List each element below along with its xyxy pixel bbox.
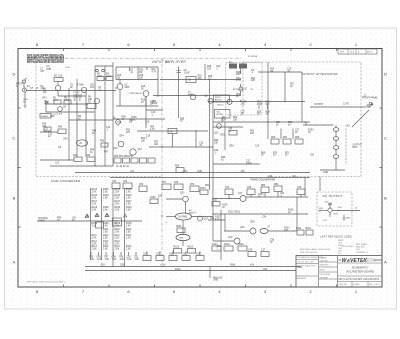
svg-text:PROJ ENGR: PROJ ENGR: [320, 274, 331, 276]
wire base: [319, 210, 328, 212]
wire long riser: [212, 102, 214, 242]
resistor R4: [106, 77, 113, 81]
input jack J1: [23, 88, 27, 92]
resistor pack: [123, 158, 130, 163]
svg-text:1K 1K 1K 1K: 1K 1K 1K 1K: [116, 166, 130, 168]
dc output dashed outline: [317, 192, 352, 226]
wire: [40, 131, 58, 133]
resistor R6: [64, 100, 71, 104]
wire diagonal: [352, 110, 369, 127]
wire band stubs: [229, 192, 301, 199]
svg-text:R59: R59: [175, 165, 180, 167]
LAST REF DESIG USED table: [320, 236, 369, 256]
wire: [46, 111, 95, 113]
svg-text:C41: C41: [310, 155, 315, 157]
svg-text:R2 1.0K: R2 1.0K: [54, 76, 63, 78]
svg-text:AND 1V RANGE SELECTED. SEE TAB: AND 1V RANGE SELECTED. SEE TABLE PER ASS…: [27, 61, 64, 64]
reference resistor R131: [96, 222, 104, 228]
connector arrow: [369, 104, 373, 108]
svg-text:R76: R76: [139, 184, 144, 186]
wire: [113, 118, 165, 120]
revision history box: [338, 49, 377, 54]
svg-text:OUTPUT ATTENUATOR: OUTPUT ATTENUATOR: [302, 72, 339, 76]
wire riser: [76, 79, 78, 119]
title block: [296, 256, 382, 288]
wire stub: [199, 251, 201, 256]
wire: [258, 71, 302, 73]
svg-text:SCALE: SCALE: [353, 283, 360, 286]
svg-text:C2 .01 1KV: C2 .01 1KV: [52, 114, 63, 116]
wire stub: [185, 251, 187, 256]
wire relay chain: [335, 125, 337, 170]
svg-text:R104: R104: [200, 188, 206, 190]
relay contact K3-1: [333, 128, 338, 132]
svg-text:C23: C23: [123, 181, 128, 183]
resistor R114: [297, 230, 304, 235]
resistor R78: [174, 184, 183, 190]
svg-text:-15V: -15V: [100, 264, 105, 266]
capacitor C26: [297, 189, 305, 195]
node: [304, 121, 305, 122]
capacitor C25: [247, 189, 255, 195]
wire: [50, 165, 113, 167]
svg-text:0101-00-0574: 0101-00-0574: [342, 246, 355, 248]
resistor R3: [97, 77, 104, 81]
svg-text:-15V: -15V: [240, 171, 245, 173]
ground symbol input: [24, 104, 27, 108]
wire: [185, 202, 187, 213]
resistor R43: [101, 143, 108, 147]
svg-text:R40 10: R40 10: [217, 104, 224, 106]
transistor Q15: [183, 196, 189, 202]
wire connector stub: [24, 78, 26, 88]
wire: [172, 134, 174, 148]
resistor R42: [87, 157, 95, 162]
capacitor C2: [79, 94, 81, 101]
wire: [213, 240, 234, 242]
wire: [45, 101, 47, 113]
wire -15V rail: [110, 177, 310, 179]
resistor R79: [190, 186, 199, 192]
svg-text:W∧VETEK: W∧VETEK: [342, 258, 368, 264]
wire amp top rail: [116, 66, 158, 68]
wire y80: [160, 79, 240, 81]
wire riser: [224, 214, 226, 231]
wire U2 out: [116, 89, 158, 106]
node: [115, 87, 116, 88]
node: [224, 230, 225, 231]
warning triangle 5: [96, 214, 99, 217]
resistor R126: [238, 246, 247, 251]
wire: [137, 67, 139, 80]
wire riser: [284, 72, 286, 102]
node: [68, 95, 69, 96]
wire: [192, 216, 213, 218]
node: [212, 213, 213, 214]
wire stub: [159, 251, 161, 256]
resistor R76: [139, 186, 147, 192]
wire stub: [90, 252, 92, 256]
svg-text:Q15: Q15: [180, 193, 185, 195]
svg-text:SHT 1 OF 1: SHT 1 OF 1: [369, 284, 381, 286]
wire riser: [204, 64, 206, 80]
wire riser: [267, 62, 269, 102]
wire riser: [220, 210, 222, 260]
relay contact K3-3: [333, 146, 338, 150]
wire ohms source: [37, 220, 142, 222]
amplifier U4: [168, 129, 177, 134]
warning triangle 4: [86, 214, 89, 217]
node: [85, 111, 86, 112]
wire riser right: [301, 72, 303, 122]
resistor R5: [54, 100, 61, 104]
svg-text:CR1: CR1: [42, 98, 47, 100]
transistor Q3: [94, 98, 99, 103]
node: [212, 198, 213, 199]
node: [76, 103, 77, 104]
svg-text:+15V: +15V: [65, 67, 70, 69]
svg-text:+5V: +5V: [250, 264, 255, 266]
wire -15V bottom rail: [85, 266, 300, 268]
zone numbers bottom: [36, 289, 358, 294]
wire: [40, 159, 74, 161]
svg-text:DO NOT SCALE DWG: DO NOT SCALE DWG: [297, 265, 316, 268]
transistor Q17: [240, 196, 246, 202]
resistor R125: [224, 246, 233, 251]
dashed link: [345, 125, 347, 165]
svg-text:R81: R81: [274, 184, 279, 186]
ref drawing notes: [300, 246, 355, 254]
wire: [213, 198, 240, 200]
capacitor C1: [74, 94, 76, 101]
wire: [115, 67, 117, 80]
svg-text:C20: C20: [268, 176, 273, 178]
relay K2: [87, 104, 96, 109]
svg-text:GND: GND: [323, 172, 328, 174]
wire: [149, 146, 213, 148]
wire: [208, 219, 225, 221]
transistor Q19: [234, 238, 240, 244]
wire: [157, 67, 159, 97]
svg-text:5.76M: 5.76M: [77, 85, 83, 87]
transistor Q7: [239, 87, 243, 91]
svg-text:R68: R68: [295, 137, 300, 139]
resistor R67: [283, 139, 291, 144]
wire stubs: [259, 105, 268, 109]
node: [284, 101, 285, 102]
wire: [213, 163, 260, 165]
resistor R104: [200, 190, 208, 195]
svg-text:APPD: APPD: [367, 51, 373, 54]
svg-text:Q18: Q18: [240, 227, 245, 229]
svg-text:ECN: ECN: [350, 52, 355, 54]
svg-text:INPUTATTEN: INPUTATTEN: [215, 97, 222, 101]
wire: [46, 103, 88, 105]
warning triangle 7: [124, 214, 127, 217]
resistor pack: [148, 158, 155, 163]
connector J2: [367, 105, 369, 107]
svg-text:REF: ASSY DWG 1100-00-0574 REV: REF: ASSY DWG 1100-00-0574 REV C: [27, 281, 66, 284]
svg-text:DWG NO: DWG NO: [339, 284, 348, 286]
svg-text:MATERIAL: MATERIAL: [297, 277, 306, 280]
connector P1: [23, 80, 26, 83]
svg-text:R77: R77: [162, 182, 167, 184]
wire riser: [104, 66, 106, 119]
wire riser: [178, 67, 180, 119]
wire +15V rail: [75, 172, 310, 174]
capacitor C16: [229, 131, 237, 136]
wire stub: [120, 252, 122, 256]
wire Q1 leads: [57, 82, 59, 97]
node: [161, 146, 162, 147]
svg-text:R141: R141: [230, 264, 236, 266]
wire riser: [112, 62, 114, 119]
svg-text:C36: C36: [248, 249, 253, 251]
wire long riser: [209, 80, 211, 190]
svg-text:R125: R125: [224, 244, 230, 246]
resistor R66: [271, 139, 279, 144]
warning triangle 2: [95, 214, 98, 217]
wire dc out: [332, 210, 360, 212]
svg-text:-15V: -15V: [323, 220, 328, 222]
op-amp U2: [117, 84, 123, 90]
node: [267, 121, 268, 122]
svg-text:CR6: CR6: [229, 146, 234, 148]
wire main: [208, 101, 305, 103]
wire stub: [128, 252, 130, 256]
relay K1 coil: [229, 64, 237, 69]
attenuator network K2A: [214, 95, 230, 102]
svg-text:R40: R40: [58, 127, 63, 129]
wire stub: [172, 251, 174, 256]
svg-text:DRAWN: DRAWN: [320, 257, 327, 260]
relay K1 contact: [239, 64, 247, 69]
node: [68, 159, 69, 160]
resistor R100: [150, 199, 158, 204]
wire: [213, 213, 308, 215]
capacitor C56: [196, 256, 204, 261]
svg-text:D: D: [13, 72, 16, 77]
svg-text:RMS: RMS: [179, 237, 184, 239]
resistor R40: [58, 129, 66, 134]
transistor Q18: [250, 228, 256, 234]
zone numbers top: [36, 42, 358, 47]
capacitor C40: [328, 203, 332, 205]
svg-text:R53 R54 R55 R56: R53 R54 R55 R56: [114, 156, 133, 158]
resistor R81: [274, 186, 282, 192]
node: [240, 71, 241, 72]
transistor Q13: [217, 124, 222, 129]
jack center: [24, 89, 25, 90]
svg-text:R140: R140: [175, 269, 181, 271]
node: [157, 79, 158, 80]
node: [36, 87, 37, 88]
svg-text:TRMS CONVERTER: TRMS CONVERTER: [250, 178, 275, 182]
zone letters right: [384, 72, 387, 265]
resistor R101: [177, 228, 185, 233]
wire stub: [135, 252, 137, 256]
node: [338, 210, 339, 211]
capacitor C36: [248, 252, 256, 257]
wire risers: [268, 102, 293, 140]
svg-text:OUTPUT: OUTPUT: [314, 104, 324, 106]
wire: [246, 196, 308, 198]
wire riser: [94, 66, 96, 119]
svg-text:C19: C19: [255, 146, 260, 148]
wire rail drop: [304, 178, 306, 197]
svg-text:R100: R100: [150, 197, 156, 199]
svg-text:J2 P2: J2 P2: [343, 104, 350, 106]
svg-text:GND: GND: [197, 171, 202, 173]
capacitor C55: [182, 256, 190, 261]
resistor R103: [188, 249, 196, 254]
wire gnd stub: [320, 169, 345, 171]
wire: [166, 198, 183, 200]
wire riser: [296, 197, 298, 231]
relay section dashed sub-box: [226, 63, 263, 116]
wire: [137, 130, 208, 132]
svg-text:C21: C21: [292, 176, 297, 178]
transistor Q10: [118, 141, 124, 147]
svg-text:Q17: Q17: [238, 193, 243, 195]
svg-text:K1 DRIVE: K1 DRIVE: [248, 56, 258, 58]
svg-text:Q11: Q11: [138, 149, 143, 151]
wire: [146, 109, 163, 111]
svg-text:R103: R103: [188, 246, 194, 248]
notes block: [27, 54, 64, 64]
resistor pack: [114, 158, 121, 163]
resistor R80: [261, 187, 269, 193]
node: [161, 215, 162, 216]
capacitor C8: [177, 71, 182, 73]
svg-text:C51: C51: [263, 269, 268, 271]
wire Q6 emitter long: [145, 96, 147, 128]
svg-text:C25: C25: [247, 187, 252, 189]
warning triangle 3: [105, 214, 108, 217]
svg-text:Q16: Q16: [204, 219, 209, 221]
svg-text:U6 RMS: U6 RMS: [179, 216, 188, 218]
wire: [225, 230, 297, 232]
wire: [58, 95, 86, 97]
svg-text:C22: C22: [112, 181, 117, 183]
resistor R124: [212, 246, 221, 251]
attenuator network K2B: [215, 110, 231, 119]
wire: [119, 80, 121, 84]
wire: [95, 65, 113, 67]
svg-text:R67: R67: [283, 137, 288, 139]
svg-text:U3 PINS 5, 9: U3 PINS 5, 9: [356, 252, 369, 254]
svg-text:R80: R80: [261, 185, 266, 187]
wire: [182, 241, 184, 246]
transistor Q16: [198, 216, 203, 221]
svg-text:VOLTMETER BOARD: VOLTMETER BOARD: [346, 270, 375, 274]
svg-text:D: D: [384, 72, 387, 77]
svg-text:RELEASE: RELEASE: [320, 276, 329, 279]
svg-text:+15V: +15V: [324, 202, 329, 204]
guard box J1: [40, 114, 51, 119]
svg-text:CR5: CR5: [220, 135, 225, 137]
ohm block dashed outline: [36, 62, 162, 177]
svg-text:C: C: [13, 136, 16, 141]
resistor R2: [54, 78, 63, 82]
svg-text:REF DWGS: ASSY 1100-00-0574: REF DWGS: ASSY 1100-00-0574: [300, 248, 331, 251]
svg-text:LAST REF DESIG USED: LAST REF DESIG USED: [320, 236, 352, 239]
svg-text:C12: C12: [55, 163, 60, 165]
resistor pack: [131, 158, 138, 163]
rms cell U6B: [176, 234, 190, 240]
capacitor C23: [123, 183, 132, 189]
wire: [195, 131, 197, 147]
block divider dash-dot line: [65, 57, 242, 59]
transistor Q8: [208, 98, 213, 103]
relay contact K3-4: [333, 155, 338, 159]
wire stub: [129, 67, 131, 71]
opto U7: [260, 229, 268, 234]
svg-text:B: B: [13, 196, 16, 201]
svg-text:R101: R101: [176, 226, 182, 228]
wire: [166, 216, 175, 218]
wire: [153, 95, 240, 97]
svg-text:+5V: +5V: [130, 171, 135, 173]
svg-text:GUARD: GUARD: [41, 115, 49, 118]
resistor R59: [176, 168, 184, 173]
capacitor C52: [143, 256, 151, 261]
transistor Q9A: [190, 94, 195, 99]
svg-text:R102: R102: [174, 246, 180, 248]
node: [228, 198, 229, 199]
wire: [303, 124, 333, 126]
resistor R77: [162, 184, 171, 190]
wire stub: [146, 251, 148, 256]
svg-text:REV: REV: [340, 52, 345, 54]
node: [240, 101, 241, 102]
wire jack down: [24, 92, 26, 104]
resistor R41: [74, 157, 82, 162]
ic U5: [186, 77, 196, 83]
resistor pack: [140, 158, 147, 163]
capacitor C22: [112, 183, 120, 189]
warning triangle 6: [106, 214, 109, 217]
svg-text:R126: R126: [238, 244, 244, 246]
wire Q20 stubs: [329, 203, 331, 217]
svg-text:DC OUTPUT: DC OUTPUT: [323, 194, 344, 198]
divider dash-dot vertical: [161, 58, 163, 263]
test point TP2: [102, 69, 105, 72]
wire relay column: [240, 69, 242, 102]
wire Q6 emitter: [145, 96, 147, 106]
node: [178, 79, 179, 80]
diode CR1: [45, 101, 48, 105]
wire +15V bottom rail: [85, 270, 296, 272]
wire riser: [68, 88, 70, 119]
svg-text:CR12: CR12: [333, 213, 339, 215]
transistor Q1: [55, 85, 60, 90]
svg-text:+15V: +15V: [182, 171, 188, 173]
wire stub: [305, 122, 307, 125]
transistor Q2: [81, 87, 86, 92]
wire ladder risers: [91, 188, 125, 267]
svg-text:ENGR: ENGR: [320, 270, 326, 272]
svg-text:OHM CONVERTER: OHM CONVERTER: [51, 179, 81, 183]
drawing border frame: [18, 49, 382, 288]
svg-text:CR3: CR3: [63, 139, 68, 141]
svg-text:+15V: +15V: [160, 264, 166, 266]
svg-text:R42: R42: [86, 155, 91, 157]
resistor R102: [174, 249, 182, 254]
svg-text:C1 C2: C1 C2: [73, 92, 80, 94]
transistor Q11: [130, 149, 136, 155]
svg-text:C50: C50: [120, 264, 125, 266]
